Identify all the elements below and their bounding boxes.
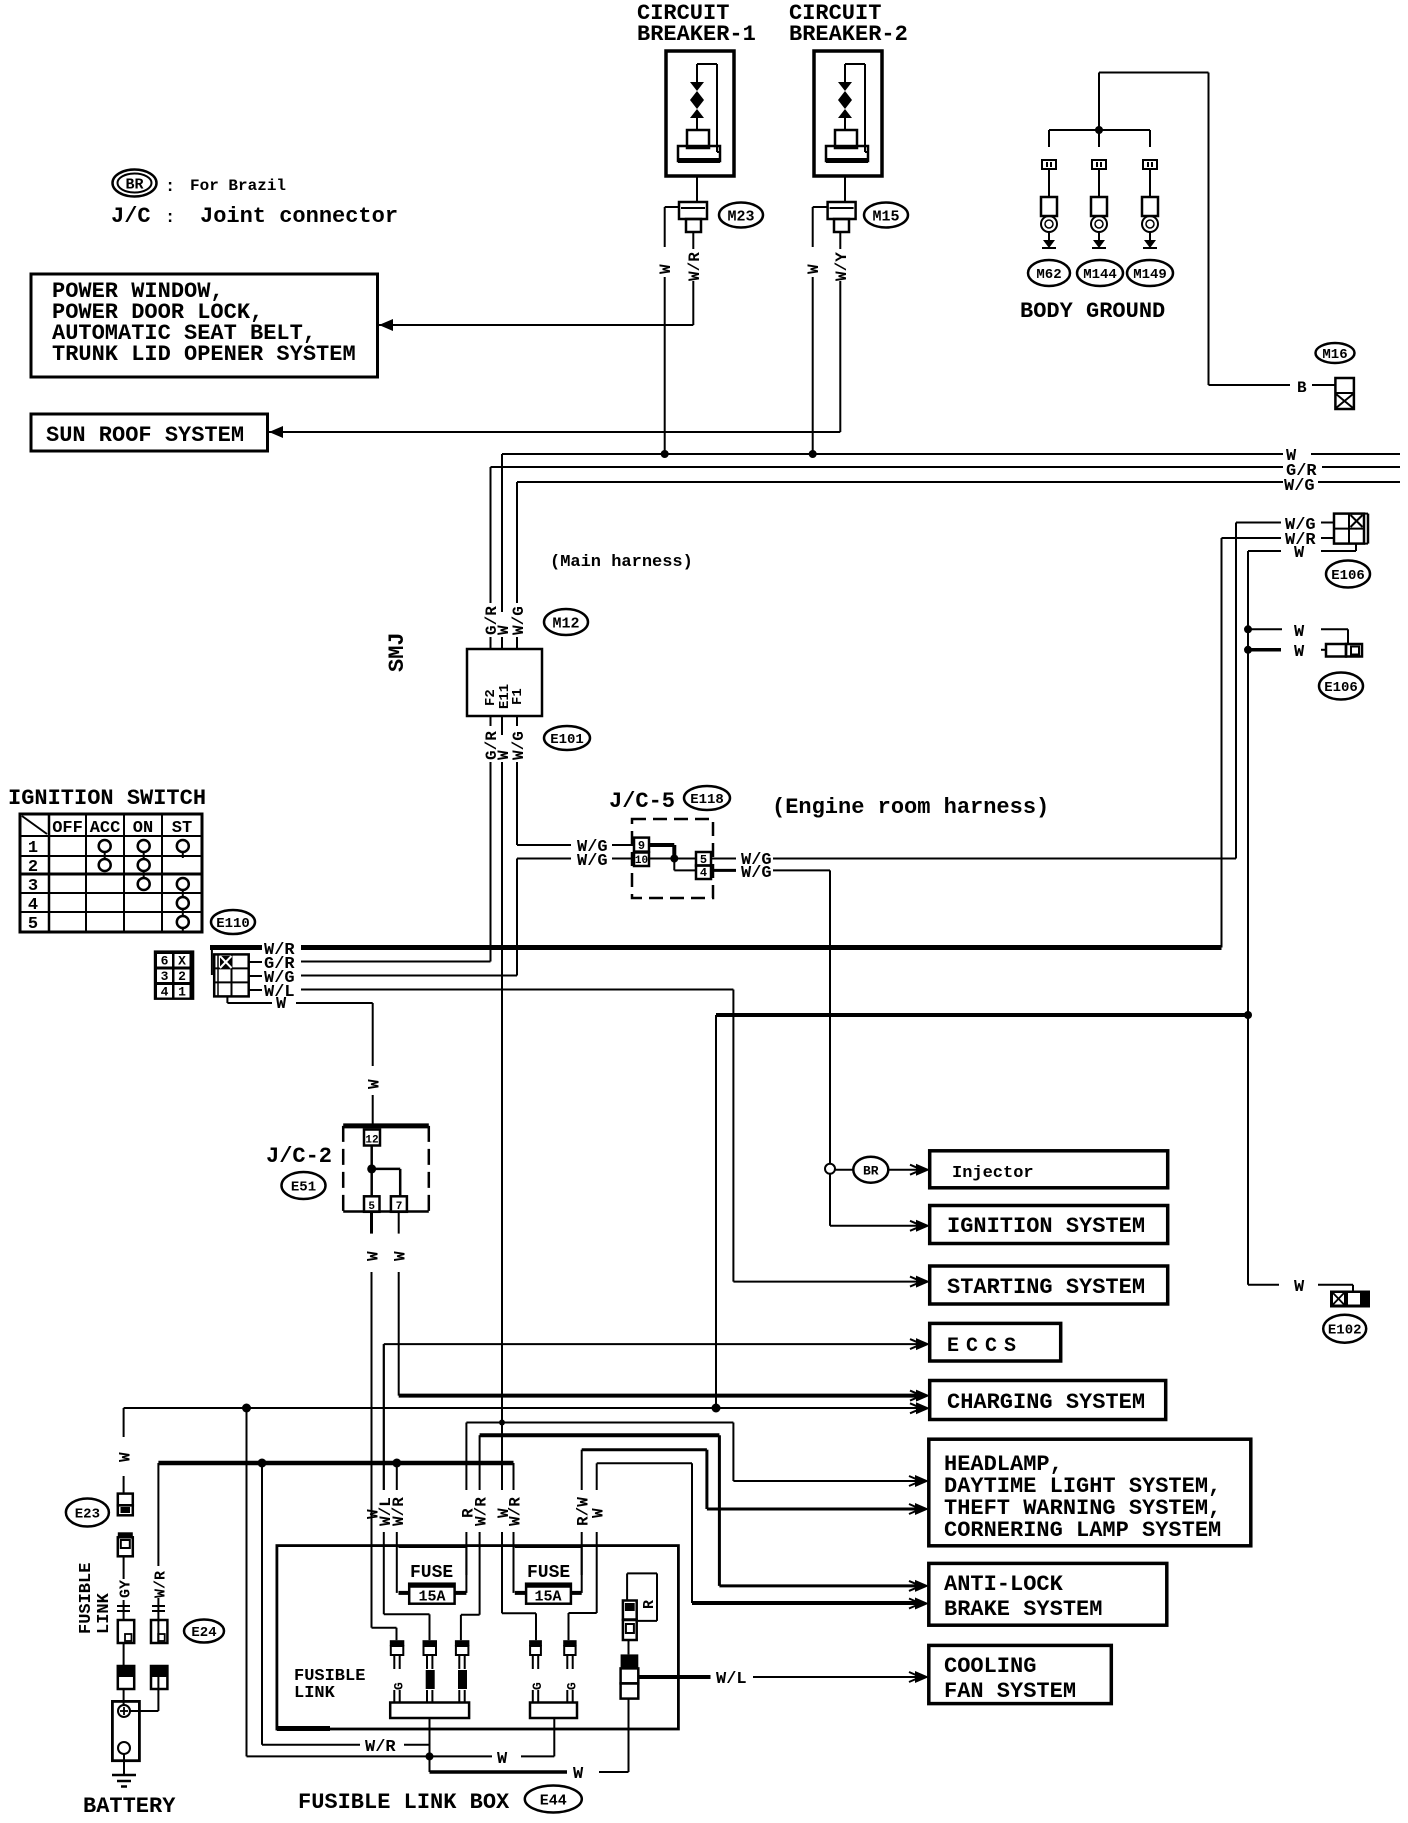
J/C-5 pin 5: [696, 852, 711, 867]
connector M23 label: [719, 203, 763, 228]
fusible link box caption: [298, 1790, 510, 1815]
battery col1 connector: [118, 1494, 133, 1516]
wire W/R battery bus: [158, 1459, 513, 1468]
wire G/R trunk: [491, 462, 1401, 481]
svg-text:OFF: OFF: [52, 819, 83, 838]
svg-text:G: G: [530, 1682, 545, 1690]
svg-text:E118: E118: [690, 792, 724, 808]
fusible link box caption inside: [294, 1667, 365, 1703]
fusible link cap5: [563, 1640, 579, 1702]
svg-text:10: 10: [635, 855, 648, 867]
svg-text:3: 3: [28, 877, 38, 896]
ignition switch table: [20, 814, 202, 932]
svg-text:W: W: [276, 995, 287, 1014]
svg-text:G: G: [392, 1682, 407, 1690]
svg-text:(Main harness): (Main harness): [550, 553, 693, 572]
svg-text:FAN SYSTEM: FAN SYSTEM: [944, 1679, 1076, 1704]
junction W CB2: [809, 450, 817, 458]
svg-text:BR: BR: [863, 1163, 879, 1178]
svg-text:E106: E106: [1324, 680, 1358, 696]
fusible link cap4: [529, 1640, 545, 1702]
J/C-5 caption: [609, 789, 675, 814]
svg-text:15A: 15A: [534, 1589, 561, 1606]
J/C-2 pin 5: [364, 1196, 380, 1213]
svg-text:ECCS: ECCS: [947, 1335, 1023, 1358]
wire CB1 to connector M23: [696, 176, 698, 202]
svg-text:W: W: [1294, 643, 1305, 662]
svg-text:M12: M12: [552, 615, 579, 632]
sun roof system box: [31, 414, 268, 451]
svg-text:M16: M16: [1322, 347, 1347, 363]
junction W charging: [712, 1404, 721, 1413]
wire W/G injector branch: [825, 1164, 853, 1226]
svg-text:W/R: W/R: [390, 1497, 408, 1526]
wire W/R bottom: [262, 1738, 430, 1757]
connector E106 lower symbol: [1326, 644, 1362, 657]
svg-text:W: W: [1294, 623, 1305, 642]
wire W SMJ column: [495, 454, 513, 1490]
connector E102 symbol: [1330, 1291, 1370, 1308]
svg-text:COOLING: COOLING: [944, 1654, 1036, 1679]
J/C-2 box: [343, 1126, 429, 1212]
svg-text:4: 4: [700, 866, 707, 880]
svg-text:E51: E51: [291, 1180, 316, 1196]
wire W/G from J/C-5 pin5 to E106: [711, 516, 1334, 870]
svg-text:5: 5: [368, 1201, 375, 1213]
body ground caption: [1020, 299, 1165, 324]
connector E101 label: [544, 726, 590, 750]
svg-text:BRAKE SYSTEM: BRAKE SYSTEM: [944, 1597, 1102, 1622]
legend J/C text: [111, 204, 398, 229]
starting system text: [947, 1275, 1145, 1300]
fuse F1 housing: [399, 1547, 467, 1575]
svg-text:W/R: W/R: [152, 1571, 169, 1598]
power window system box: [31, 274, 378, 377]
connector E106 lower label: [1319, 673, 1363, 700]
junction W E106a: [1244, 623, 1348, 644]
wire body ground bus: [1049, 129, 1150, 131]
wire W/Y from CB2: [833, 232, 851, 432]
svg-text::: :: [165, 178, 175, 197]
wire R to headlamp: [466, 1420, 929, 1488]
svg-text:ANTI-LOCK: ANTI-LOCK: [944, 1572, 1064, 1597]
svg-text:J/C-5: J/C-5: [609, 789, 675, 814]
svg-text:5: 5: [28, 915, 38, 934]
svg-text:GY: GY: [118, 1580, 135, 1598]
svg-text:IGNITION SWITCH: IGNITION SWITCH: [8, 786, 206, 811]
wire W/G from J/C-5 pin4: [711, 864, 830, 1164]
wire W/R fuse column: [390, 1463, 408, 1593]
sun roof system text: [46, 423, 244, 448]
wire W smj fuse column: [495, 1508, 536, 1640]
svg-text:W/R: W/R: [686, 252, 704, 281]
SMJ box: [467, 649, 542, 716]
fusible link R loop: [627, 1573, 658, 1621]
wire W bus thick: [716, 1011, 1252, 1408]
J/C-5 box: [632, 819, 713, 898]
fusible link holder1: [118, 1666, 134, 1689]
svg-text:E110: E110: [216, 916, 250, 932]
ignition switch pin grid: [154, 950, 195, 1000]
injector box: [930, 1151, 1168, 1188]
svg-text:B: B: [1297, 379, 1307, 397]
wire W bus2 output: [553, 1718, 555, 1756]
svg-text:12: 12: [365, 1135, 378, 1147]
svg-text:BATTERY: BATTERY: [83, 1794, 176, 1818]
svg-text:W: W: [1294, 544, 1305, 563]
wire W/G trunk: [517, 477, 1400, 496]
connector M144 label: [1077, 260, 1123, 286]
fusible link R connector: [623, 1601, 637, 1641]
svg-text:BREAKER-2: BREAKER-2: [789, 22, 908, 47]
svg-text:W/G: W/G: [510, 731, 528, 760]
fusible link cap2: [423, 1640, 438, 1702]
connector E44 label: [525, 1786, 582, 1813]
battery ground: [112, 1754, 136, 1787]
svg-text:9: 9: [638, 839, 645, 853]
J/C-5 pin 4: [696, 866, 711, 881]
wire W from J/C-2 left: [365, 1212, 383, 1546]
svg-text:For Brazil: For Brazil: [190, 177, 286, 195]
connector M62 label: [1028, 260, 1070, 286]
svg-text:W: W: [392, 1251, 410, 1261]
connector M16 label: [1316, 343, 1355, 363]
eccs text: [947, 1335, 1023, 1358]
svg-text:2: 2: [178, 969, 186, 984]
svg-text:W: W: [573, 1765, 584, 1784]
wire W/R from CB1: [686, 232, 704, 325]
svg-text:W/R: W/R: [473, 1497, 491, 1526]
svg-text:W: W: [590, 1508, 608, 1518]
connector M15 symbol: [828, 202, 856, 232]
svg-text:SMJ: SMJ: [385, 632, 410, 672]
ignition switch row labels: [28, 839, 38, 934]
svg-text:E101: E101: [550, 732, 584, 748]
legend For Brazil text: [190, 177, 286, 195]
svg-text:W: W: [497, 1750, 508, 1769]
svg-text:15A: 15A: [418, 1589, 445, 1606]
wire W/R fuse2 in: [507, 1463, 525, 1593]
circuit breaker CB2 title: [789, 1, 908, 47]
wire W to anti-lock: [597, 1463, 929, 1609]
svg-text:BREAKER-1: BREAKER-1: [637, 22, 756, 47]
junction battery W branch: [242, 1404, 251, 1413]
injector text: [952, 1164, 1034, 1183]
svg-text:W/L: W/L: [716, 1670, 747, 1689]
svg-text:4: 4: [161, 985, 169, 1000]
svg-text:W: W: [1294, 1278, 1305, 1297]
fusible link cap1: [390, 1640, 407, 1702]
headlamp text: [944, 1452, 1221, 1543]
ground bolt 1: [1041, 130, 1057, 248]
circuit breaker CB1 element: [678, 64, 720, 163]
charging system box: [930, 1381, 1166, 1420]
svg-text:FUSIBLE: FUSIBLE: [77, 1563, 96, 1634]
eccs box: [930, 1323, 1061, 1361]
svg-text:R: R: [641, 1600, 658, 1609]
J/C-5 pin 9: [634, 838, 649, 853]
connector M16 symbol: [1335, 378, 1354, 409]
svg-text:W: W: [495, 1508, 513, 1518]
svg-text:J/C: J/C: [111, 204, 151, 229]
ignition switch caption: [8, 786, 206, 811]
fuse F2 15A: [515, 1584, 582, 1606]
wire W E110 to J/C-2: [366, 1003, 384, 1126]
wire W battery: [117, 1408, 135, 1494]
connector M12 label: [544, 609, 588, 635]
connector E110 symbol: [212, 946, 249, 996]
fusible link holder2: [151, 1666, 167, 1689]
connector E51 label: [282, 1172, 326, 1199]
cooling connector stack: [621, 1654, 639, 1698]
svg-text:W/G: W/G: [741, 864, 772, 883]
wire W to E102: [1248, 1278, 1353, 1297]
wire W fuse column: [365, 1509, 383, 1519]
wire R/W fuse2 out: [575, 1450, 593, 1593]
circuit breaker CB2 element: [826, 64, 868, 163]
J/C-2 internal wire: [367, 1146, 400, 1197]
J/C-5 pin 10: [634, 853, 649, 868]
wire W/L from E110: [249, 983, 734, 1002]
svg-text:ACC: ACC: [90, 819, 121, 838]
svg-text:6: 6: [161, 954, 169, 969]
svg-text:BODY GROUND: BODY GROUND: [1020, 299, 1165, 324]
svg-text:FUSE: FUSE: [527, 1563, 570, 1583]
circuit breaker CB2 box: [814, 51, 882, 176]
svg-text:M149: M149: [1133, 267, 1167, 283]
wire R fuse1: [459, 1423, 477, 1593]
wire R/W to headlamp: [582, 1450, 929, 1515]
wire W from E106 upper: [1248, 544, 1305, 1285]
svg-text:M144: M144: [1083, 267, 1117, 283]
wire holder1 battery: [123, 1689, 125, 1705]
wire W/G lower into J/C-5: [517, 852, 634, 976]
connector E106 upper symbol: [1321, 514, 1368, 551]
ignition system box: [930, 1206, 1168, 1244]
wire R stack join: [628, 1640, 630, 1654]
wire W from E110: [227, 995, 372, 1014]
svg-text:STARTING SYSTEM: STARTING SYSTEM: [947, 1275, 1145, 1300]
svg-text:F1: F1: [510, 688, 526, 705]
starting system box: [930, 1266, 1168, 1304]
svg-text:E44: E44: [540, 1792, 567, 1809]
wire W/G SMJ column: [510, 482, 528, 845]
svg-text:W/G: W/G: [1284, 477, 1315, 496]
power window system text: [52, 279, 356, 367]
svg-text:W/G: W/G: [510, 606, 528, 635]
engine room harness caption: [772, 795, 1049, 820]
wire W trunk: [502, 447, 1400, 466]
fusible link caption: [77, 1563, 114, 1634]
wire W left branch: [246, 1408, 248, 1756]
svg-text:SUN ROOF SYSTEM: SUN ROOF SYSTEM: [46, 423, 244, 448]
wire W/G to ignition system: [830, 1220, 930, 1232]
wire G/R SMJ column: [483, 467, 501, 962]
svg-text:(Engine room harness): (Engine room harness): [772, 795, 1049, 820]
junction W E106b: [1244, 643, 1326, 662]
cooling fan text: [944, 1654, 1076, 1704]
wire W/G from E110: [249, 969, 517, 988]
fuse F2 caption: [527, 1563, 570, 1583]
connector M15 label: [864, 203, 908, 228]
fusible link box: [277, 1546, 679, 1729]
fuse F1 15A: [399, 1584, 467, 1606]
ignition switch headers: [52, 819, 192, 838]
svg-text:W/Y: W/Y: [833, 252, 851, 281]
svg-text:W: W: [366, 1079, 384, 1089]
svg-text:G: G: [565, 1682, 580, 1690]
cooling fan box: [929, 1645, 1112, 1703]
fuse F2 housing: [515, 1547, 582, 1575]
SMJ caption: [385, 632, 410, 672]
fusible link FL2: [151, 1620, 167, 1643]
connector M23 symbol: [679, 202, 707, 232]
wire W/R to power window: [379, 319, 693, 331]
ignition system text: [947, 1214, 1145, 1239]
wire W/R fuse1 out: [461, 1435, 491, 1640]
svg-text:TRUNK LID OPENER SYSTEM: TRUNK LID OPENER SYSTEM: [52, 342, 356, 367]
wire FL1 to battery: [123, 1643, 125, 1666]
svg-text:FUSE: FUSE: [410, 1563, 453, 1583]
svg-text:J/C-2: J/C-2: [266, 1144, 332, 1169]
svg-text:W/G: W/G: [577, 852, 608, 871]
svg-text:W: W: [365, 1251, 383, 1261]
wire W charging thin: [124, 1402, 930, 1414]
J/C-2 pin 12: [364, 1130, 380, 1147]
main harness caption: [550, 553, 693, 572]
wire W from J/C-2 right: [392, 1212, 410, 1396]
svg-text:2: 2: [28, 858, 38, 877]
wire W/L to starting system: [733, 990, 930, 1288]
wire W bottom2: [430, 1699, 629, 1784]
svg-text:CORNERING LAMP SYSTEM: CORNERING LAMP SYSTEM: [944, 1518, 1221, 1543]
wire B to M16: [1209, 73, 1337, 398]
wire G/R from E110: [249, 955, 491, 974]
fuse F1 caption: [410, 1563, 453, 1583]
connector E23 label: [66, 1499, 109, 1527]
svg-text:3: 3: [161, 969, 169, 984]
ignition switch contacts: [99, 840, 189, 932]
bus bar 2: [530, 1703, 577, 1719]
fusible link FL1: [118, 1620, 134, 1643]
circuit breaker CB1 title: [637, 1, 756, 47]
svg-text:E106: E106: [1331, 568, 1365, 584]
wire body ground feed: [1099, 73, 1209, 131]
wire W from CB2: [805, 207, 828, 454]
anti-lock box: [929, 1563, 1167, 1625]
svg-text:4: 4: [28, 896, 38, 915]
wire W/G upper into J/C-5: [517, 838, 634, 857]
charging system text: [947, 1390, 1145, 1415]
legend BR symbol: [113, 170, 176, 198]
wire W/L eccs: [384, 1338, 930, 1490]
battery col1 connector2: [118, 1532, 133, 1556]
wire W charging thick: [399, 1390, 930, 1402]
svg-text:1: 1: [28, 839, 38, 858]
wire W/R to E106: [1222, 531, 1335, 948]
svg-text:E102: E102: [1328, 1323, 1362, 1339]
wire W jc2 into box: [372, 1546, 397, 1641]
wire W/R to anti-lock: [480, 1435, 929, 1592]
bus bar 1: [390, 1703, 469, 1719]
svg-text:7: 7: [396, 1201, 403, 1213]
ground bolt 3: [1142, 130, 1158, 248]
svg-text:W: W: [117, 1452, 135, 1462]
J/C-5 internal joint: [649, 845, 696, 870]
svg-text:LINK: LINK: [95, 1592, 114, 1634]
circuit breaker CB1 box: [666, 51, 734, 176]
wire holder2 to battery plus: [130, 1689, 158, 1711]
connector E106 upper label: [1326, 561, 1370, 588]
wire W/L fuse column: [377, 1344, 430, 1640]
J/C-2 caption: [266, 1144, 332, 1169]
wire CB2 to connector M15: [844, 176, 846, 202]
wire W bottom1: [247, 1750, 555, 1769]
anti-lock text: [944, 1572, 1102, 1622]
J/C-2 pin 7: [391, 1196, 407, 1213]
battery: [112, 1701, 139, 1760]
wire W/R left branch: [261, 1463, 263, 1745]
svg-text:ON: ON: [133, 819, 153, 838]
junction W CB1: [661, 450, 669, 458]
svg-text:X: X: [178, 954, 186, 969]
svg-text::: :: [165, 209, 175, 228]
connector E102 label: [1323, 1315, 1366, 1343]
wire W/Y to sun roof: [269, 426, 840, 438]
svg-text:ST: ST: [172, 819, 192, 838]
svg-text:M23: M23: [727, 208, 754, 225]
svg-text:M15: M15: [872, 208, 899, 225]
connector E110 label: [211, 910, 255, 934]
svg-text:W: W: [657, 264, 675, 274]
wire W/R battery col2: [152, 1463, 169, 1689]
svg-text:Joint connector: Joint connector: [200, 204, 398, 229]
svg-text:W: W: [805, 264, 823, 274]
svg-text:W/R: W/R: [365, 1738, 396, 1757]
BR oval injector: [853, 1157, 930, 1183]
junction body ground: [1095, 126, 1103, 134]
svg-text:M62: M62: [1036, 267, 1061, 283]
ground bolt 2: [1091, 130, 1107, 248]
svg-text:Injector: Injector: [952, 1164, 1034, 1183]
wire W/L to cooling fan: [638, 1670, 929, 1689]
svg-text:FUSIBLE LINK BOX: FUSIBLE LINK BOX: [298, 1790, 510, 1815]
wire W/R from E110: [210, 941, 1222, 960]
svg-text:E23: E23: [75, 1507, 100, 1523]
fusible link cap3: [455, 1640, 470, 1702]
svg-text:E24: E24: [191, 1625, 216, 1641]
connector E24 label: [184, 1620, 224, 1643]
connector E118 label: [684, 786, 730, 810]
connector M149 label: [1127, 260, 1173, 286]
wire W from CB1: [657, 207, 679, 454]
wire GY: [117, 1556, 135, 1620]
battery caption: [83, 1794, 176, 1819]
svg-text:LINK: LINK: [294, 1684, 336, 1703]
svg-text:IGNITION SYSTEM: IGNITION SYSTEM: [947, 1214, 1145, 1239]
headlamp box: [929, 1439, 1251, 1546]
svg-text:1: 1: [178, 985, 186, 1000]
svg-text:CHARGING SYSTEM: CHARGING SYSTEM: [947, 1390, 1145, 1415]
wire W bus2 column: [569, 1463, 608, 1640]
